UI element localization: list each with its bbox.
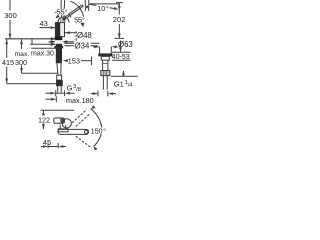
svg-text:300: 300: [15, 58, 27, 67]
svg-text:45: 45: [43, 138, 51, 147]
deck thickness tick: [31, 39, 33, 45]
svg-text:55°: 55°: [57, 8, 68, 17]
svg-text:202: 202: [113, 15, 126, 24]
dim 300 top vertical line: [9, 0, 12, 39]
svg-text:40-53: 40-53: [112, 54, 130, 61]
mounting shank below deck: [56, 44, 62, 63]
top view body circle: [62, 119, 71, 128]
svg-text:55°: 55°: [74, 15, 85, 24]
text 10 deg: [97, 5, 110, 12]
top view base band: [58, 129, 68, 132]
dashed centerline near body: [75, 31, 77, 43]
svg-text:Ø48: Ø48: [77, 31, 92, 40]
svg-text:153: 153: [68, 56, 81, 65]
deck top reference line with right arrow: [5, 37, 56, 40]
svg-text:122: 122: [38, 116, 50, 125]
swing arc small with left arrow: [56, 13, 71, 18]
spout tube cropped at top: [84, 0, 86, 6]
svg-text:/8: /8: [76, 87, 81, 93]
svg-text:10 °: 10 °: [97, 4, 109, 13]
hose lines: [57, 63, 58, 75]
lever tilted 55 deg: [66, 6, 84, 18]
svg-text:/4: /4: [128, 82, 134, 88]
top view lever: [54, 118, 65, 123]
svg-text:300: 300: [4, 11, 17, 20]
svg-text:max.180: max.180: [66, 96, 94, 105]
svg-text:Ø34: Ø34: [75, 42, 90, 51]
aerator box: [85, 6, 89, 9]
dim max.300 vertical line: [20, 39, 23, 73]
deck lines right of faucet: [64, 42, 99, 44]
leader arrow for 48: [65, 31, 77, 34]
dim arrows for 34: [49, 40, 75, 43]
lever up lines: [60, 0, 62, 17]
svg-text:415: 415: [2, 58, 14, 67]
drain pipe dimension row: [91, 91, 116, 97]
svg-text:150 °: 150 °: [91, 127, 107, 136]
G 1 1/4 leader line: [111, 70, 138, 76]
drain flange body: [99, 47, 101, 54]
swing arc large with end arrow: [71, 1, 84, 26]
G3/8 nut block: [56, 80, 63, 86]
thread tail: [57, 86, 59, 92]
top view neck: [59, 125, 61, 129]
10 deg reference horizontal line: [89, 3, 119, 5]
svg-text:43: 43: [40, 19, 48, 28]
dome cartridge cap: [58, 17, 69, 23]
drain flange Ø63 dimension: [93, 45, 122, 48]
text diameter 48: [77, 31, 94, 38]
text 55 deg #2: [74, 16, 86, 22]
svg-text:max.: max.: [15, 51, 30, 58]
max.30 overline: [31, 47, 57, 49]
svg-text:G1: G1: [114, 79, 124, 88]
text diameter 34: [74, 42, 91, 49]
top view spout bar: [58, 129, 89, 134]
text diameter 63: [118, 40, 135, 47]
dim 153: [63, 57, 92, 66]
G3/8 end dimension row: [46, 90, 75, 96]
dim 122: [42, 111, 45, 130]
dim 40-53: [112, 41, 131, 61]
swivel dashed spout up-right: [72, 110, 87, 123]
swivel dashed spout down-right: [76, 136, 92, 148]
max.180 dimension row: [46, 96, 57, 102]
text 150 deg: [90, 128, 106, 134]
faucet body column: [55, 23, 64, 37]
text 55 deg #1: [54, 11, 59, 14]
hose reference line 300: [22, 72, 59, 74]
dim 45: [41, 143, 66, 148]
hose fitting: [57, 75, 62, 80]
swivel arc 150 deg: [91, 109, 103, 131]
dim 202 vertical line: [115, 3, 125, 39]
10 deg tilted line with arrow: [89, 4, 119, 10]
dim 415 vertical line: [5, 39, 8, 84]
svg-text:max.30: max.30: [31, 50, 54, 57]
drain pipe: [102, 60, 104, 70]
deck bottom reference line with right arrow: [30, 43, 56, 46]
top view: rear reference line: [41, 109, 75, 111]
svg-text:G: G: [67, 84, 73, 93]
hose reference line 415: [7, 83, 57, 85]
dim 43 leader: [40, 26, 56, 29]
